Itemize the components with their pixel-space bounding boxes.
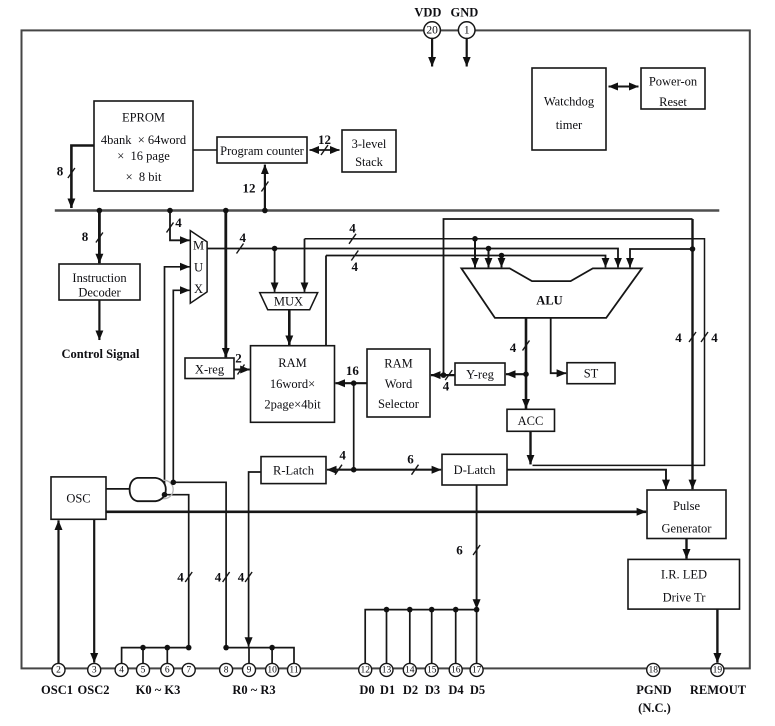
svg-text:2page×4bit: 2page×4bit	[264, 398, 321, 412]
svg-text:PGND: PGND	[636, 683, 671, 697]
svg-text:6: 6	[456, 543, 463, 558]
svg-text:ST: ST	[584, 367, 599, 381]
svg-text:Stack: Stack	[355, 155, 384, 169]
svg-text:6: 6	[165, 665, 170, 675]
svg-text:Decoder: Decoder	[78, 286, 121, 300]
svg-text:4bank × 64word: 4bank × 64word	[101, 133, 187, 147]
svg-text:RAM: RAM	[278, 356, 306, 370]
svg-text:M: M	[193, 239, 204, 253]
svg-text:4: 4	[177, 570, 184, 585]
svg-text:U: U	[194, 261, 203, 275]
svg-text:× 8 bit: × 8 bit	[126, 170, 162, 184]
svg-text:4: 4	[119, 665, 124, 675]
svg-text:× 16 page: × 16 page	[117, 149, 170, 163]
svg-text:REMOUT: REMOUT	[690, 683, 747, 697]
svg-text:2: 2	[235, 351, 242, 366]
svg-text:VDD: VDD	[414, 6, 441, 20]
svg-text:Y-reg: Y-reg	[466, 368, 495, 382]
svg-text:OSC2: OSC2	[78, 683, 110, 697]
svg-text:X-reg: X-reg	[195, 363, 225, 377]
svg-text:16: 16	[346, 363, 360, 378]
svg-text:RAM: RAM	[384, 357, 412, 371]
svg-text:D-Latch: D-Latch	[454, 463, 496, 477]
svg-text:11: 11	[289, 665, 298, 675]
svg-text:2: 2	[56, 665, 61, 675]
svg-text:16: 16	[451, 665, 461, 675]
svg-text:1: 1	[464, 25, 470, 37]
svg-text:I.R. LED: I.R. LED	[661, 568, 707, 582]
svg-text:D2: D2	[403, 683, 418, 697]
svg-text:Selector: Selector	[378, 397, 420, 411]
svg-text:D0: D0	[359, 683, 374, 697]
svg-text:4: 4	[215, 570, 222, 585]
svg-text:8: 8	[224, 665, 229, 675]
svg-text:4: 4	[711, 330, 718, 345]
svg-text:OSC: OSC	[66, 492, 90, 506]
svg-text:timer: timer	[556, 118, 583, 132]
svg-text:Reset: Reset	[659, 95, 687, 109]
svg-text:3: 3	[92, 665, 97, 675]
svg-text:Drive Tr: Drive Tr	[663, 591, 707, 605]
svg-text:17: 17	[472, 665, 482, 675]
svg-text:ACC: ACC	[518, 414, 544, 428]
svg-text:(N.C.): (N.C.)	[638, 701, 671, 715]
svg-text:4: 4	[349, 221, 356, 236]
svg-text:19: 19	[713, 665, 723, 675]
svg-text:Instruction: Instruction	[72, 271, 127, 285]
svg-text:6: 6	[407, 452, 414, 467]
svg-text:EPROM: EPROM	[122, 111, 165, 125]
svg-text:15: 15	[427, 665, 437, 675]
svg-text:4: 4	[443, 379, 450, 394]
svg-text:D4: D4	[448, 683, 464, 697]
svg-text:R-Latch: R-Latch	[273, 464, 315, 478]
svg-text:12: 12	[360, 665, 370, 675]
svg-text:16word×: 16word×	[270, 377, 315, 391]
svg-text:9: 9	[247, 665, 252, 675]
svg-text:Control Signal: Control Signal	[62, 347, 140, 361]
svg-text:Word: Word	[385, 377, 413, 391]
svg-text:12: 12	[318, 132, 331, 147]
svg-text:7: 7	[186, 665, 191, 675]
svg-text:14: 14	[405, 665, 415, 675]
svg-text:D5: D5	[470, 683, 485, 697]
svg-text:OSC1: OSC1	[41, 683, 73, 697]
svg-text:Program counter: Program counter	[220, 144, 304, 158]
svg-text:5: 5	[141, 665, 146, 675]
svg-text:8: 8	[57, 164, 64, 179]
svg-text:4: 4	[510, 340, 517, 355]
svg-text:GND: GND	[451, 6, 479, 20]
svg-text:X: X	[194, 282, 203, 296]
svg-text:4: 4	[339, 448, 346, 463]
svg-text:Pulse: Pulse	[673, 499, 701, 513]
svg-text:MUX: MUX	[274, 295, 303, 309]
svg-text:Watchdog: Watchdog	[544, 95, 595, 109]
svg-text:D1: D1	[380, 683, 395, 697]
svg-text:4: 4	[175, 215, 182, 230]
svg-text:10: 10	[267, 665, 277, 675]
svg-text:4: 4	[238, 570, 245, 585]
svg-text:12: 12	[243, 181, 256, 196]
svg-text:K0 ~ K3: K0 ~ K3	[136, 683, 181, 697]
svg-text:8: 8	[82, 229, 89, 244]
svg-text:4: 4	[352, 259, 359, 274]
svg-text:Generator: Generator	[662, 522, 713, 536]
svg-text:4: 4	[675, 330, 682, 345]
svg-text:R0 ~ R3: R0 ~ R3	[232, 683, 275, 697]
svg-text:4: 4	[240, 230, 247, 245]
svg-text:Power-on: Power-on	[649, 75, 698, 89]
svg-text:20: 20	[426, 25, 438, 37]
svg-text:18: 18	[648, 665, 658, 675]
svg-text:3-level: 3-level	[352, 137, 387, 151]
svg-text:D3: D3	[425, 683, 440, 697]
svg-text:13: 13	[382, 665, 392, 675]
svg-text:ALU: ALU	[536, 294, 562, 308]
